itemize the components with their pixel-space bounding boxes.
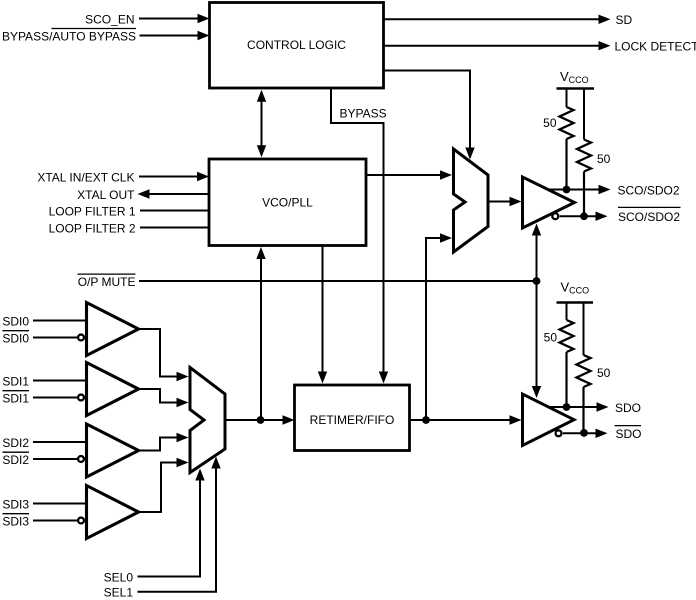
wire SEL0 xyxy=(138,480,201,577)
wire SEL1 xyxy=(138,468,217,592)
buffer SDO output xyxy=(523,394,575,446)
wire XTAL OUT xyxy=(148,193,209,195)
svg-text:SDO: SDO xyxy=(615,401,641,415)
svg-text:SDI2: SDI2 xyxy=(2,453,29,467)
block CONTROL LOGIC xyxy=(210,3,384,89)
wire BYPASS net xyxy=(331,88,384,372)
wire SDO inverted output xyxy=(563,432,596,434)
resistor 50 upper-right xyxy=(583,89,585,140)
bubble SDO inverted xyxy=(556,430,562,436)
svg-text:XTAL IN/EXT CLK: XTAL IN/EXT CLK xyxy=(37,170,134,184)
wire O/P MUTE xyxy=(139,280,537,282)
wire SDI0-bar xyxy=(33,337,77,339)
bubble SDI1-bar xyxy=(78,395,84,401)
bubble SDI3-bar xyxy=(78,518,84,524)
wire XTAL IN/EXT CLK xyxy=(139,176,199,178)
wire input mux to retimer xyxy=(225,419,284,421)
supply VCCO lower rail xyxy=(557,301,594,304)
junction mux out to VCO tap xyxy=(257,416,265,424)
wire SDI0 buffer to mux xyxy=(139,329,178,377)
svg-text:SEL0: SEL0 xyxy=(104,570,134,584)
wire BYPASS/AUTO BYPASS xyxy=(140,35,200,37)
output SD wire xyxy=(384,18,600,20)
buffer SDI1 input xyxy=(87,363,139,416)
buffer SDI3 input xyxy=(87,486,139,539)
output LOCK DETECT wire xyxy=(384,45,600,47)
junction pullup SCO xyxy=(563,186,571,194)
wire SDI3-bar xyxy=(33,520,77,522)
svg-text:BYPASS: BYPASS xyxy=(340,107,387,121)
svg-text:SDI0: SDI0 xyxy=(2,314,29,328)
svg-text:CONTROL LOGIC: CONTROL LOGIC xyxy=(247,38,346,52)
svg-text:SDI1: SDI1 xyxy=(2,374,29,388)
wire SDI2-bar xyxy=(33,458,77,460)
wire O/P MUTE to SDO buffer xyxy=(536,281,538,388)
svg-text:LOCK DETECT: LOCK DETECT xyxy=(615,40,696,54)
resistor 50 lower-right xyxy=(583,303,585,356)
svg-text:SDI3: SDI3 xyxy=(2,514,29,528)
wire LOOP FILTER 1 xyxy=(140,210,209,212)
svg-text:VCCO: VCCO xyxy=(560,69,589,85)
wire SDI2 buffer to mux xyxy=(139,438,178,451)
junction O/P MUTE split xyxy=(533,277,541,285)
bubble SCO/SDO2 inverted xyxy=(552,213,558,219)
wire VCO clock to retimer xyxy=(322,246,324,373)
wire control-vco double arrow xyxy=(261,98,263,148)
wire SCO/SDO2 inverted output xyxy=(560,215,596,217)
junction pullup SDO-bar xyxy=(580,429,588,437)
mux clock/bypass 2:1 xyxy=(454,149,489,252)
buffer SCO/SDO2 output xyxy=(523,177,575,228)
supply VCCO upper rail xyxy=(557,87,595,90)
svg-text:SCO_EN: SCO_EN xyxy=(85,12,134,26)
junction pullup SCO-bar xyxy=(580,212,588,220)
resistor 50 lower-left xyxy=(566,303,568,321)
buffer SDI2 input xyxy=(87,424,139,477)
mux input select 4:1 xyxy=(190,368,225,473)
svg-text:SD: SD xyxy=(616,13,633,27)
svg-text:SDI3: SDI3 xyxy=(2,497,29,511)
wire SDI1-bar xyxy=(33,397,77,399)
wire input mux out to VCO xyxy=(260,258,262,420)
junction pullup SDO xyxy=(563,403,571,411)
wire SCO_EN xyxy=(139,18,199,20)
wire retimer data up to clock mux xyxy=(426,238,441,420)
svg-text:50: 50 xyxy=(544,331,558,345)
svg-text:O/P MUTE: O/P MUTE xyxy=(78,275,136,289)
svg-text:SCO/SDO2: SCO/SDO2 xyxy=(618,183,680,197)
bubble SDI2-bar xyxy=(78,456,84,462)
junction retimer output xyxy=(422,416,430,424)
svg-text:50: 50 xyxy=(543,116,557,130)
buffer SDI0 input xyxy=(87,303,139,356)
svg-text:XTAL OUT: XTAL OUT xyxy=(77,188,135,202)
svg-text:LOOP FILTER 2: LOOP FILTER 2 xyxy=(49,221,136,235)
wire SDI3 xyxy=(33,503,85,505)
svg-text:VCO/PLL: VCO/PLL xyxy=(262,196,313,210)
block RETIMER/FIFO xyxy=(295,385,410,451)
svg-text:SDI2: SDI2 xyxy=(2,436,29,450)
wire LOOP FILTER 2 xyxy=(140,227,209,229)
svg-text:RETIMER/FIFO: RETIMER/FIFO xyxy=(310,413,395,427)
wire O/P MUTE to SCO buffer xyxy=(536,234,538,281)
wire SDO true output xyxy=(547,406,597,408)
wire control to clock mux select xyxy=(384,71,470,150)
svg-text:SCO/SDO2: SCO/SDO2 xyxy=(618,210,680,224)
resistor 50 upper-left xyxy=(566,89,568,108)
wire retimer to SDO buffer xyxy=(410,419,511,421)
svg-text:VCCO: VCCO xyxy=(561,279,590,295)
block VCO/PLL xyxy=(209,159,366,246)
svg-text:SDI0: SDI0 xyxy=(2,331,29,345)
svg-text:BYPASS/AUTO BYPASS: BYPASS/AUTO BYPASS xyxy=(2,29,136,43)
svg-text:50: 50 xyxy=(597,152,611,166)
svg-text:SEL1: SEL1 xyxy=(104,586,134,600)
wire SDI0 xyxy=(33,320,85,322)
wire SDI2 xyxy=(33,441,85,443)
svg-text:50: 50 xyxy=(597,366,611,380)
wire SDI1 xyxy=(33,380,85,382)
svg-text:LOOP FILTER 1: LOOP FILTER 1 xyxy=(49,204,136,218)
wire SDI3 buffer to mux xyxy=(139,463,178,513)
svg-text:SDI1: SDI1 xyxy=(2,391,29,405)
wire SDI1 buffer to mux xyxy=(139,389,178,403)
bubble SDI0-bar xyxy=(78,335,84,341)
wire clock mux output xyxy=(488,201,510,203)
wire SCO/SDO2 true output xyxy=(547,189,599,191)
wire VCO clock out to clock mux xyxy=(366,174,441,176)
svg-text:SDO: SDO xyxy=(616,427,642,441)
